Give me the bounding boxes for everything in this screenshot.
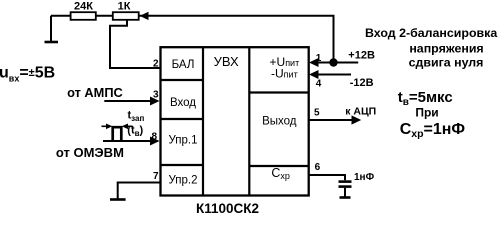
svg-text:-Uпит: -Uпит [271, 67, 298, 81]
svg-text:УВХ: УВХ [214, 54, 239, 69]
svg-text:4: 4 [316, 79, 322, 90]
svg-text:от ОМЭВМ: от ОМЭВМ [56, 145, 124, 160]
svg-text:Упр.2: Упр.2 [168, 175, 197, 187]
svg-text:7: 7 [153, 171, 159, 182]
svg-text:(tв): (tв) [127, 124, 143, 138]
svg-text:6: 6 [315, 162, 321, 173]
svg-text:-12В: -12В [350, 77, 374, 89]
svg-text:1: 1 [316, 53, 322, 64]
svg-text:1нФ: 1нФ [354, 172, 375, 183]
svg-text:При: При [415, 106, 438, 120]
svg-text:Выход: Выход [262, 115, 297, 127]
svg-text:Схр: Схр [271, 166, 290, 181]
svg-text:24К: 24К [74, 1, 93, 13]
svg-text:1К: 1К [118, 1, 131, 13]
svg-text:напряжения: напряжения [409, 42, 483, 56]
svg-text:tзап: tзап [128, 110, 145, 124]
svg-text:2: 2 [153, 59, 159, 70]
svg-text:uвх=±5В: uвх=±5В [0, 65, 55, 84]
svg-text:сдвига нуля: сдвига нуля [409, 56, 484, 70]
svg-text:Вход: Вход [170, 97, 196, 109]
svg-text:Вход 2-балансировка: Вход 2-балансировка [365, 26, 497, 40]
svg-text:Упр.1: Упр.1 [168, 135, 197, 147]
svg-text:3: 3 [153, 90, 159, 101]
svg-text:к АЦП: к АЦП [345, 106, 376, 118]
svg-text:5: 5 [314, 108, 320, 119]
svg-text:8: 8 [151, 132, 157, 143]
svg-text:БАЛ: БАЛ [172, 59, 195, 71]
svg-text:от АМПС: от АМПС [67, 85, 123, 100]
svg-text:К1100СК2: К1100СК2 [196, 201, 259, 216]
svg-text:Схр=1нФ: Схр=1нФ [400, 121, 466, 140]
svg-text:+12В: +12В [348, 50, 375, 62]
